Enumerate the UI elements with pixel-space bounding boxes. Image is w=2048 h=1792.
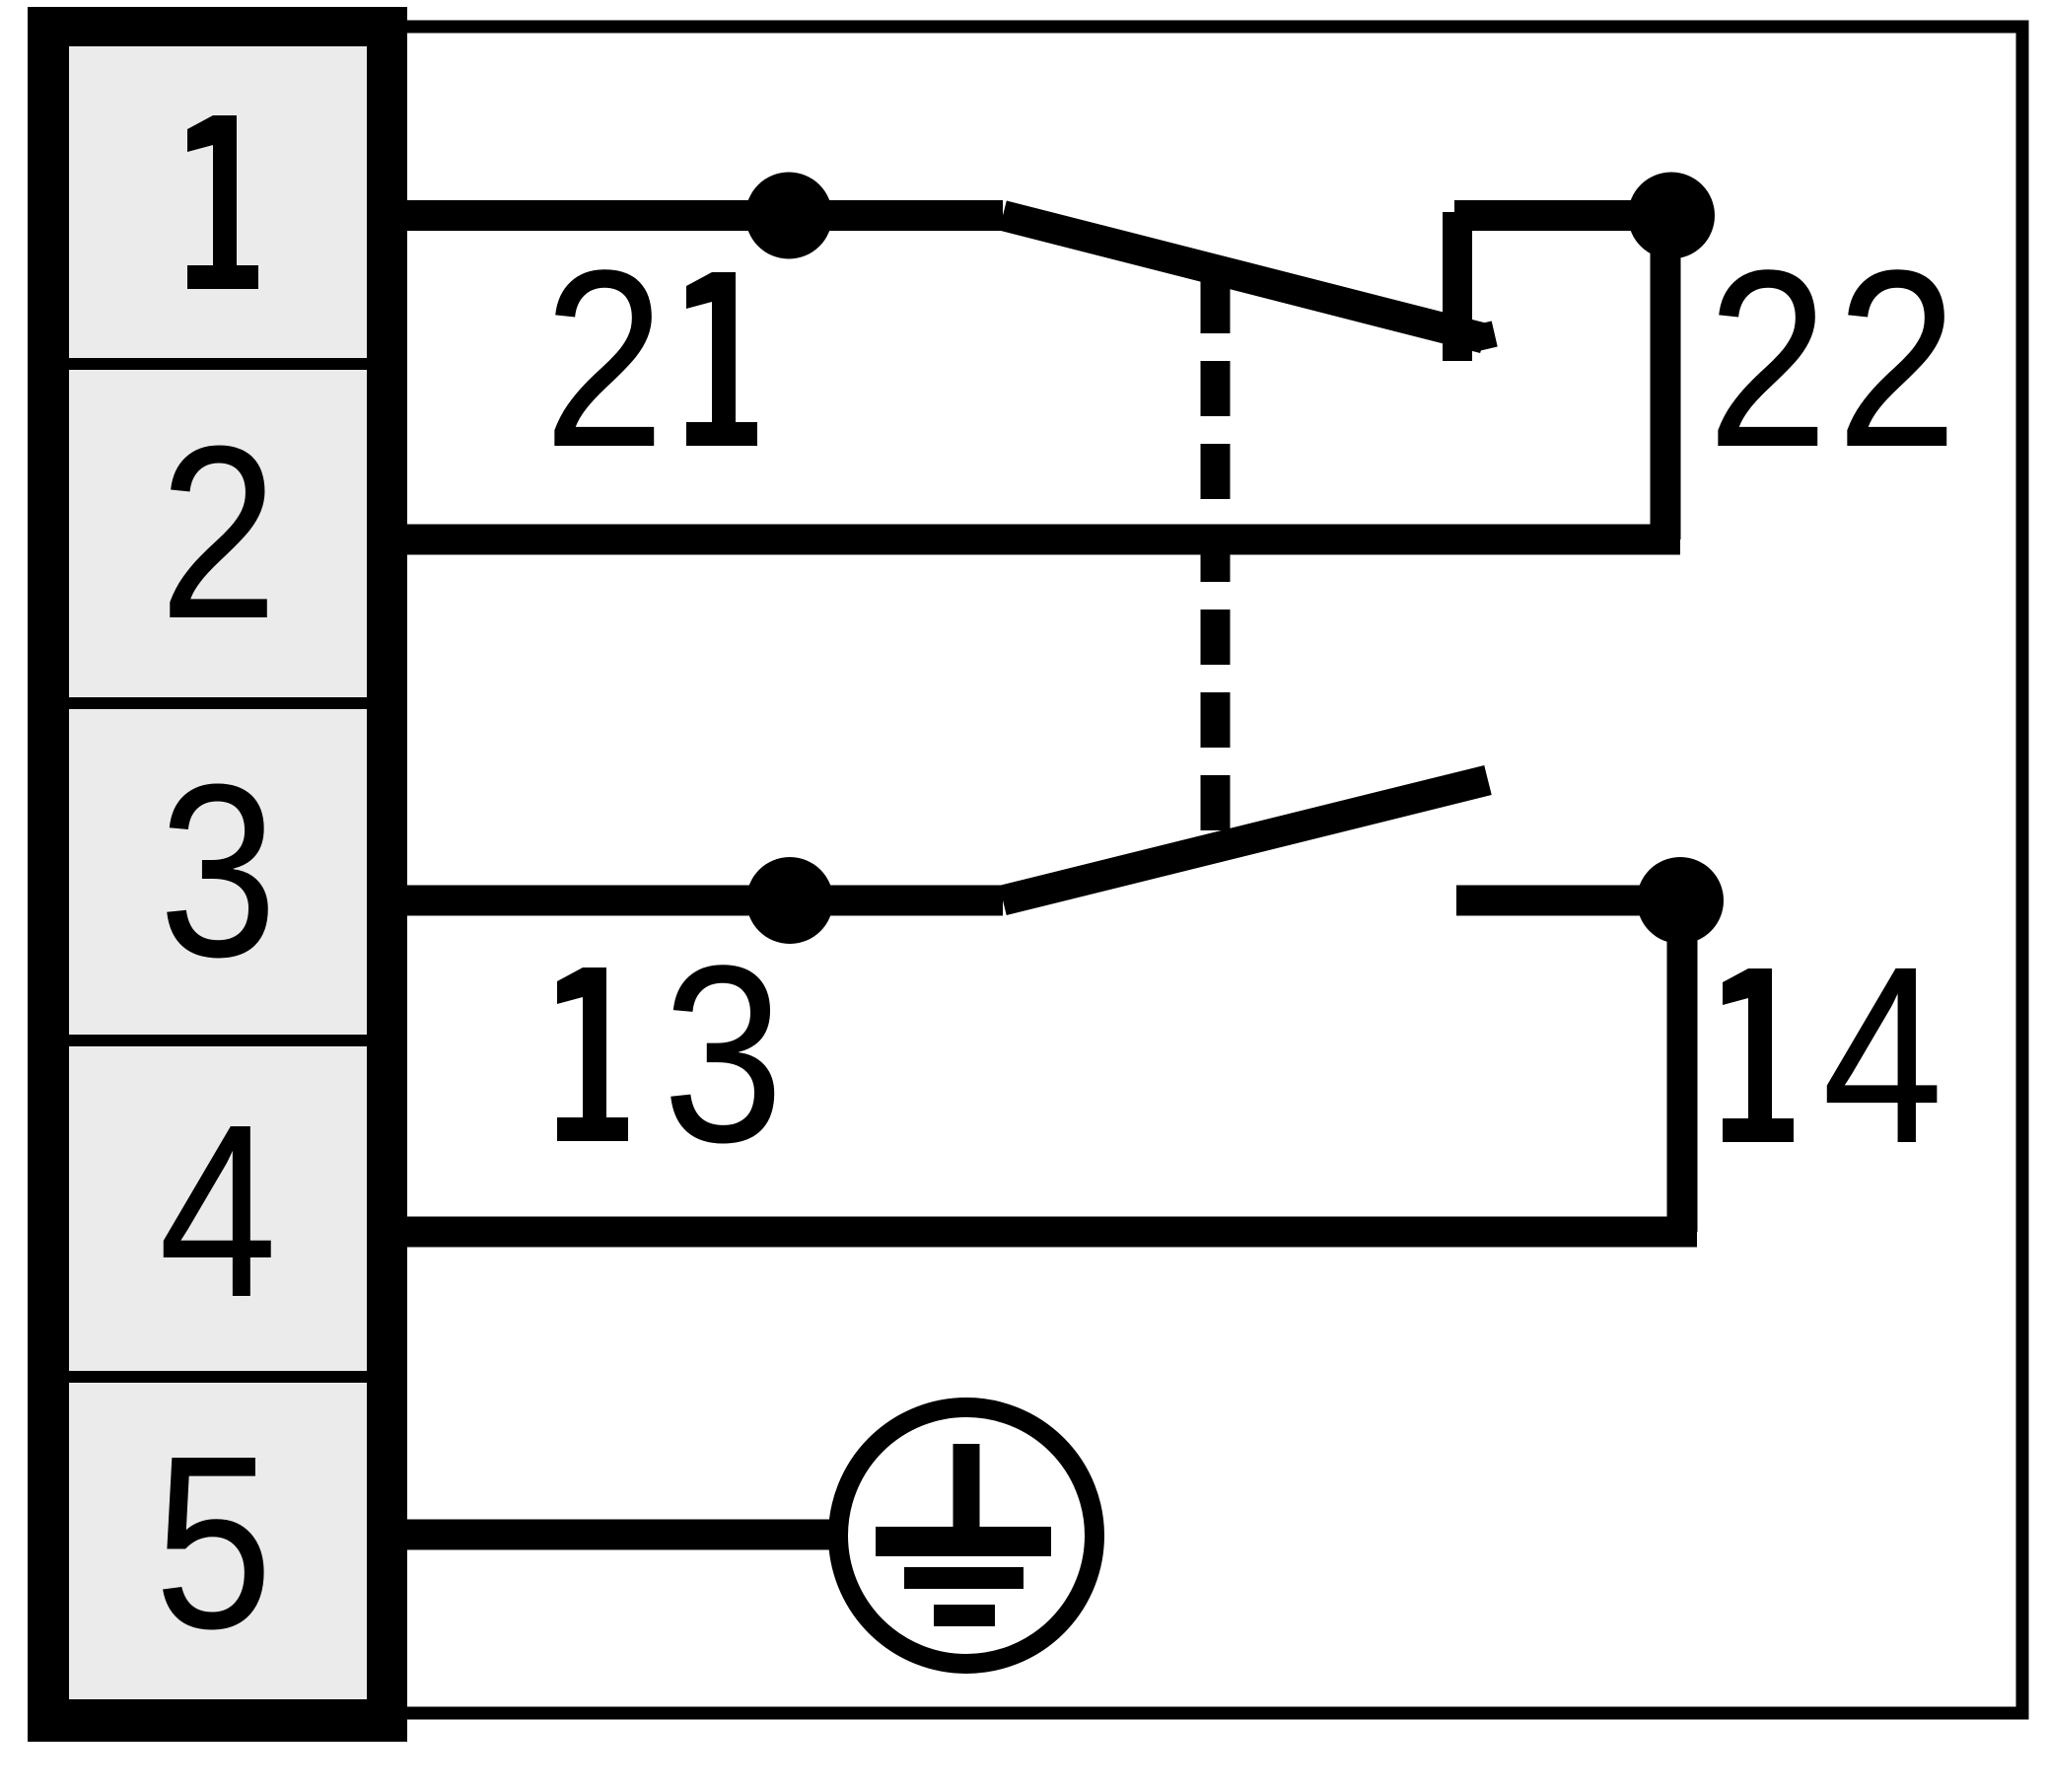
svg-text:5: 5	[154, 1403, 272, 1680]
svg-text:3: 3	[159, 732, 277, 1008]
svg-text:2: 2	[1836, 217, 1957, 500]
svg-text:4: 4	[159, 1072, 277, 1348]
svg-text:2: 2	[1707, 217, 1828, 500]
svg-text:2: 2	[543, 217, 665, 500]
svg-text:2: 2	[159, 394, 277, 670]
svg-text:4: 4	[1822, 913, 1943, 1196]
svg-text:3: 3	[663, 912, 784, 1195]
